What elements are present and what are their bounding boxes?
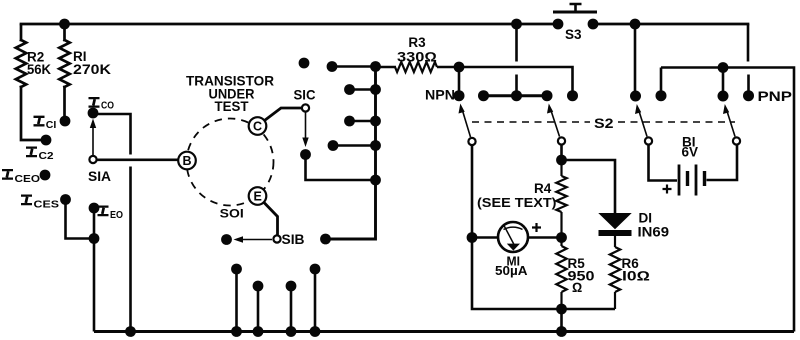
wire top rail corner down to PNP with hop: [747, 24, 750, 96]
wire right horizontal to right rail down to bottom: [661, 68, 794, 332]
pushbutton S3: [553, 4, 599, 42]
node S1B contact dot: [221, 234, 232, 245]
svg-text:S2: S2: [594, 115, 614, 131]
wire I_CO right and down to bottom rail (hop over SIA wire): [94, 114, 131, 332]
node contact row 4 dots: [328, 140, 339, 151]
svg-text:I0Ω: I0Ω: [622, 269, 650, 284]
node junction I_CES/I_EO: [89, 233, 100, 244]
svg-text:SIC: SIC: [294, 88, 316, 103]
wire I_EO down to junction and down to bottom rail: [93, 208, 96, 332]
label R5 950 ohm: [568, 256, 595, 295]
resistor R4: [556, 160, 566, 238]
node bus end dot: [320, 234, 331, 245]
node bottom stub 4: [310, 264, 321, 337]
node bottom stub 3: [286, 281, 297, 337]
node I_EO: [89, 203, 123, 221]
svg-text:C: C: [253, 120, 262, 134]
node contact row 3 dots: [344, 116, 355, 127]
node I_CEO: [2, 170, 50, 185]
svg-text:56K: 56K: [27, 62, 51, 77]
label R3 330 ohm: [397, 35, 437, 65]
wire shorting bar: [484, 94, 548, 97]
switch S1A wiper arrow: [90, 119, 96, 156]
node unused contact above SIC: [299, 58, 310, 69]
wire bus contact row 2: [350, 88, 376, 91]
node contact row 1 dots: [327, 61, 338, 72]
svg-text:EO: EO: [110, 209, 123, 221]
node junction meter right / R4 R5: [556, 232, 567, 243]
svg-text:SIA: SIA: [88, 169, 111, 184]
switch S2 wiper 3: [635, 104, 652, 145]
svg-text:PNP: PNP: [758, 88, 793, 104]
resistor R2: [16, 25, 26, 87]
switch S2 wiper 2: [547, 104, 565, 145]
resistor R6: [610, 236, 620, 309]
wire R2 bottom lead to I_C2: [21, 87, 46, 140]
node junction I_CO wire on bottom rail: [125, 326, 136, 337]
wire S3 right vertical down to S2 contact: [634, 24, 637, 96]
wire wiper1 down to meter line and bottom wire: [472, 145, 615, 309]
node I_C2: [26, 135, 54, 162]
svg-text:6V: 6V: [682, 145, 699, 160]
node S2 contact dots row: [454, 90, 755, 101]
svg-text:Ω: Ω: [572, 280, 582, 295]
node junction S3 right on top rail: [630, 19, 641, 30]
wire top rail left segment: [21, 23, 557, 26]
svg-text:SIB: SIB: [282, 232, 305, 247]
wire top rail right segment with corner down at right: [594, 23, 748, 26]
switch S2 wiper 1: [459, 104, 476, 146]
svg-text:CO: CO: [101, 100, 114, 112]
node I_CO: [88, 98, 114, 118]
svg-text:330Ω: 330Ω: [397, 50, 437, 65]
wire R1 bottom lead to I_C1: [63, 87, 66, 121]
wire junction stub down to S2 contact: [722, 68, 725, 97]
node bottom stub 2: [253, 281, 264, 337]
svg-text:50µA: 50µA: [495, 263, 528, 278]
switch S1C pivot: [302, 104, 309, 111]
node junction meter left: [467, 232, 478, 243]
svg-text:S3: S3: [565, 27, 582, 42]
label R1 270K: [73, 49, 111, 77]
node junction R5 bottom: [556, 304, 567, 315]
wire NPN stub: [458, 67, 461, 96]
svg-text:B: B: [183, 154, 192, 168]
resistor R5: [556, 238, 566, 310]
wire dashed gang line S2: [472, 121, 735, 123]
node junction on right wire: [718, 62, 729, 73]
switch S2 wiper 4: [723, 104, 740, 145]
svg-text:R4: R4: [534, 181, 552, 196]
wire R5 bottom to rail: [560, 309, 563, 332]
transistor under test dashed circle: [187, 119, 274, 206]
diode D1: [599, 211, 670, 240]
wire bottom rail: [94, 330, 794, 333]
switch S1A pivot: [89, 156, 96, 163]
node junction NPN on R3 wire: [454, 62, 465, 73]
resistor R1: [59, 24, 69, 87]
svg-text:270K: 270K: [73, 62, 111, 77]
node S1C contact dot: [300, 149, 311, 160]
node bus junction at SIC wire: [370, 175, 381, 186]
wire diode branch top: [562, 160, 616, 214]
node I_CES: [21, 194, 71, 210]
node bottom stub 1: [231, 264, 242, 337]
node junction on bottom rail: [556, 326, 567, 337]
wire stub left end to S2 contact: [660, 68, 663, 96]
svg-text:E: E: [254, 190, 262, 204]
wire S3 left vertical with hop over R3 wire: [515, 24, 518, 96]
wire E to S1B pivot: [264, 203, 278, 235]
wire bus contact row 3: [350, 120, 376, 123]
node junction R4 top / diode branch: [556, 155, 567, 166]
wire wiper2 down to R4 junction: [560, 145, 563, 160]
node contact row 2 dots: [344, 84, 355, 95]
battery B1: [649, 135, 738, 196]
wire S1 wafer bus: [326, 67, 376, 240]
svg-text:(SEE TEXT): (SEE TEXT): [477, 195, 557, 210]
node junction S3 left on top rail: [511, 19, 522, 30]
transistor terminal C: [249, 117, 267, 135]
wire R3 left lead: [376, 66, 397, 69]
resistor R3: [395, 62, 437, 72]
wire C to S1C pivot: [265, 108, 303, 121]
switch S1B pivot: [273, 235, 280, 242]
switch S1C wiper arrow pointing down: [302, 113, 308, 148]
transistor terminal B: [178, 152, 196, 170]
svg-text:IN69: IN69: [638, 225, 670, 240]
svg-text:R3: R3: [408, 35, 426, 50]
wire I_CES down to junction: [66, 200, 95, 239]
wire S1C contact to bus: [306, 155, 376, 181]
label R2 56K: [27, 50, 51, 78]
wire bus contact row 4: [333, 144, 376, 147]
svg-text:DI: DI: [639, 211, 653, 226]
svg-text:NPN: NPN: [425, 87, 455, 103]
svg-text:C2: C2: [39, 150, 54, 162]
svg-text:CI: CI: [46, 119, 57, 131]
label R6 10 ohm: [622, 256, 651, 284]
label TRANSISTOR UNDER TEST: [186, 73, 274, 115]
transistor terminal E: [249, 187, 267, 205]
wire SIA to base B: [97, 159, 178, 162]
switch S1B wiper arrow pointing left: [234, 236, 273, 242]
wire bus contact row 1: [332, 65, 376, 68]
svg-text:SOI: SOI: [220, 207, 244, 221]
meter M1: [472, 222, 562, 278]
label R4 (SEE TEXT): [477, 181, 557, 210]
wire R3 right lead to corner down: [437, 67, 573, 96]
svg-text:CES: CES: [34, 199, 60, 211]
node I_C1: [34, 116, 71, 131]
svg-text:TEST: TEST: [215, 98, 249, 114]
svg-text:CEO: CEO: [15, 173, 41, 185]
node dot on top rail at R1: [59, 19, 70, 30]
